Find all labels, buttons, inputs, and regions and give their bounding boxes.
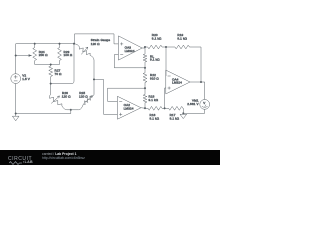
node ground-right — [183, 113, 185, 115]
svg-text:LM324: LM324 — [172, 81, 182, 85]
svg-text:9.1 kΩ: 9.1 kΩ — [170, 116, 180, 120]
resistor R24 — [33, 44, 48, 65]
resistor R16 — [148, 106, 169, 120]
node R20-R19 — [165, 46, 167, 48]
resistor R26 — [50, 84, 72, 106]
wire OA4 minus vertical — [165, 47, 167, 76]
resistor R19 — [166, 33, 201, 82]
wire OA4 plus vertical — [165, 88, 166, 108]
ground left — [12, 114, 19, 121]
node F2 — [144, 87, 146, 89]
wire OA4 out — [190, 82, 205, 100]
svg-text:2.861 V: 2.861 V — [187, 102, 199, 106]
wire OA3 out — [142, 47, 148, 48]
wire P to OA2 plus — [94, 79, 117, 114]
svg-text:100 Ω: 100 Ω — [64, 53, 73, 57]
resistor R17 — [169, 106, 184, 120]
svg-text:120 Ω: 120 Ω — [62, 94, 71, 98]
wire top rail — [16, 43, 74, 45]
resistor R20 — [148, 33, 166, 49]
svg-text:120 Ω: 120 Ω — [79, 94, 88, 98]
wire left rail to V2 — [15, 44, 17, 74]
wire OA3 feedback — [114, 55, 145, 68]
op-amp OA4 — [166, 70, 190, 94]
wire N to mid vertical — [51, 44, 74, 84]
node R23 top — [59, 43, 61, 45]
resistor R18 — [143, 88, 159, 108]
svg-text:120 Ω: 120 Ω — [91, 42, 100, 46]
svg-text:910 Ω: 910 Ω — [150, 76, 159, 80]
svg-text:70 Ω: 70 Ω — [55, 72, 63, 76]
ground right — [180, 113, 187, 118]
resistor RL — [143, 47, 160, 68]
node B — [144, 107, 146, 109]
op-amp OA3 — [118, 36, 142, 60]
node F1 — [144, 67, 146, 69]
wire bridge mid connector — [35, 64, 60, 66]
footer bar — [0, 150, 220, 165]
wire V2 bottom — [15, 84, 17, 114]
resistor R27 — [49, 65, 62, 84]
wire OA3 plus route — [75, 34, 119, 44]
svg-text:1.5 V: 1.5 V — [22, 77, 31, 81]
node M — [50, 64, 52, 66]
node P gauge bottom — [93, 79, 95, 81]
wire VM1 bottom — [183, 109, 204, 113]
svg-text:LM324: LM324 — [125, 49, 135, 53]
node N — [50, 83, 52, 85]
resistor R25 — [79, 79, 94, 104]
node bus-junction — [70, 109, 72, 111]
node ground-left — [15, 113, 17, 115]
node R24 top — [34, 43, 36, 45]
wire bottom bus — [16, 110, 71, 114]
node out — [200, 81, 202, 83]
node R16-R17 — [164, 108, 166, 110]
svg-text:LM324: LM324 — [124, 107, 134, 111]
node A — [144, 46, 146, 48]
svg-text:9.1 kΩ: 9.1 kΩ — [149, 98, 159, 102]
voltage source V2 — [11, 74, 31, 84]
op-amp OA2 — [117, 96, 141, 119]
svg-text:200 Ω: 200 Ω — [39, 53, 48, 57]
svg-text:9.1 kΩ: 9.1 kΩ — [152, 36, 162, 40]
wire OA2 feedback — [108, 88, 146, 101]
wire OA2 out — [141, 107, 148, 110]
node rail-right — [73, 43, 75, 45]
wire pot wiper arrow R24 — [16, 54, 31, 56]
wire gauge-bottom connector — [62, 104, 84, 110]
svg-text:V: V — [203, 101, 205, 105]
svg-text:9.1 kΩ: 9.1 kΩ — [150, 116, 160, 120]
svg-text:9.1 kΩ: 9.1 kΩ — [150, 58, 160, 62]
resistor R22 — [143, 68, 159, 88]
svg-text:9.1 kΩ: 9.1 kΩ — [177, 36, 187, 40]
voltmeter VM1 — [187, 99, 209, 110]
resistor R23 — [58, 44, 73, 65]
strain gauge 120 ohm — [74, 38, 110, 79]
